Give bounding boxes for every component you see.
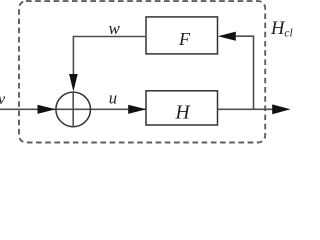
arrow into block F right side bbox=[218, 32, 236, 41]
dashed closed-loop boundary box bbox=[19, 1, 265, 142]
label F bbox=[178, 29, 191, 49]
svg-text:F: F bbox=[178, 29, 191, 49]
block F rectangle bbox=[146, 17, 218, 54]
label w bbox=[109, 19, 121, 38]
summing junction circle bbox=[56, 92, 91, 127]
block H rectangle bbox=[146, 91, 218, 125]
arrow w down into summing junction bbox=[69, 74, 78, 92]
svg-text:w: w bbox=[109, 19, 121, 38]
label u bbox=[109, 89, 117, 108]
label v bbox=[0, 91, 6, 108]
summing junction plus vertical diameter bbox=[72, 92, 74, 127]
arrow output at right bbox=[272, 104, 290, 114]
svg-text:u: u bbox=[109, 89, 117, 108]
arrow u into block H bbox=[128, 105, 146, 114]
svg-text:Hcl: Hcl bbox=[270, 19, 293, 40]
wire w from F to summing junction bbox=[73, 37, 146, 89]
svg-text:v: v bbox=[0, 91, 6, 108]
feedback tap wire up to F bbox=[236, 36, 254, 109]
arrow v into summing junction bbox=[38, 105, 56, 114]
wire v input into summing junction bbox=[0, 108, 146, 110]
label H bbox=[175, 103, 191, 124]
svg-text:H: H bbox=[175, 103, 191, 124]
wire H output to right edge bbox=[218, 108, 275, 110]
label H_cl bbox=[270, 19, 293, 40]
